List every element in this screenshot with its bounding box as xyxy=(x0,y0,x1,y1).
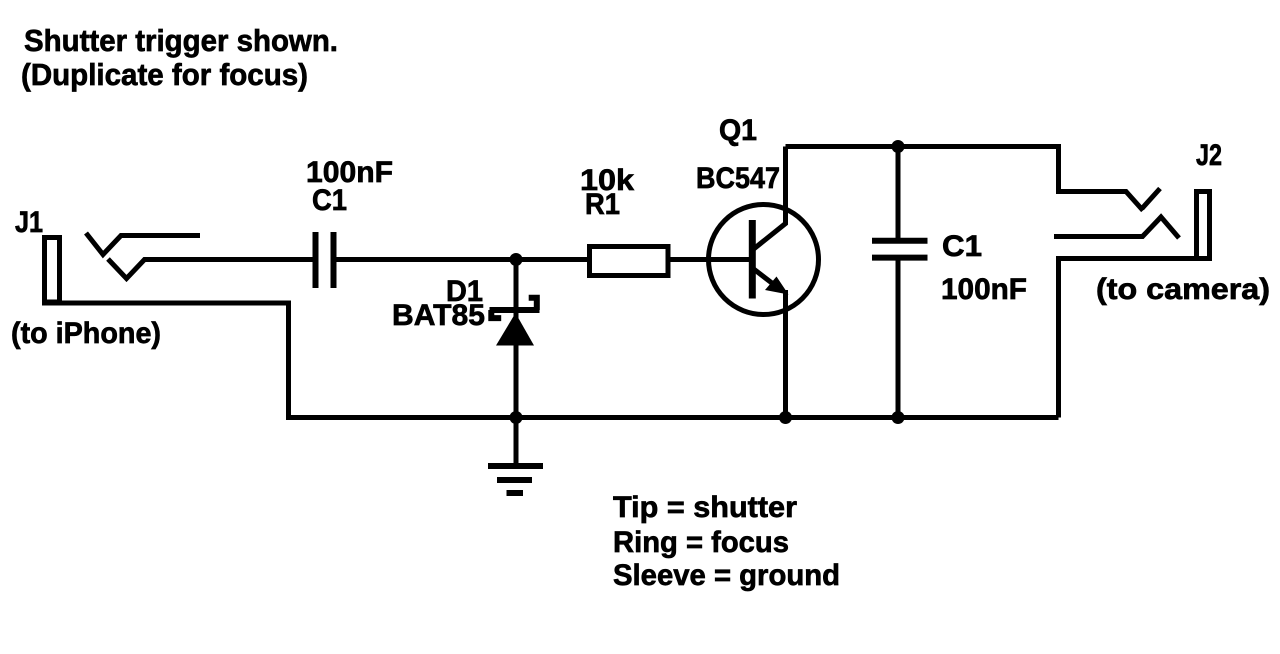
transistor Q1 collector xyxy=(753,147,786,250)
svg-text:Tip = shutter: Tip = shutter xyxy=(613,491,797,524)
ground bar 1 xyxy=(488,463,543,469)
jack J2 ring contact xyxy=(1054,217,1179,238)
transistor Q1 emitter xyxy=(753,269,781,291)
jack J2 body xyxy=(1197,192,1210,259)
svg-text:BC547: BC547 xyxy=(696,162,780,195)
resistor R1 body xyxy=(590,247,669,276)
svg-text:Ring = focus: Ring = focus xyxy=(613,526,789,559)
svg-text:C1: C1 xyxy=(312,184,347,217)
svg-text:BAT85: BAT85 xyxy=(392,299,485,332)
svg-text:(Duplicate for focus): (Duplicate for focus) xyxy=(21,57,308,92)
jack J1 body xyxy=(45,238,60,303)
ground wire xyxy=(514,418,519,464)
svg-text:(to camera): (to camera) xyxy=(1096,273,1270,306)
svg-text:R1: R1 xyxy=(585,188,620,221)
diode D1 schottky hook left xyxy=(491,310,501,318)
capacitor C1 left bar 2 xyxy=(331,232,337,288)
jack J2 tip contact tick xyxy=(1142,189,1160,209)
wire J2 sleeve to ground rail xyxy=(1059,259,1213,418)
transistor Q1 emitter wire xyxy=(783,290,788,418)
capacitor C1 right wire top xyxy=(896,147,901,239)
svg-text:Shutter trigger shown.: Shutter trigger shown. xyxy=(24,23,338,58)
wire collector top rail xyxy=(786,147,1144,211)
capacitor C1 left bar 1 xyxy=(313,232,319,288)
ground bar 2 xyxy=(497,477,532,483)
jack J1 tip contact xyxy=(86,233,200,255)
svg-text:J1: J1 xyxy=(15,206,43,239)
wire J1 sleeve to ground rail xyxy=(42,303,1059,418)
svg-text:(to iPhone): (to iPhone) xyxy=(11,317,161,350)
diode D1 cathode bar xyxy=(490,307,540,313)
transistor Q1 base bar xyxy=(749,220,756,299)
svg-text:J2: J2 xyxy=(1196,139,1222,172)
svg-text:Q1: Q1 xyxy=(719,114,757,147)
svg-text:C1: C1 xyxy=(942,230,982,263)
node junction emitter ground rail xyxy=(779,411,792,424)
node junction capacitor ground rail xyxy=(892,411,905,424)
capacitor C1 right bar 2 xyxy=(872,255,928,261)
node junction top rail capacitor xyxy=(892,140,905,153)
node junction signal xyxy=(510,253,523,266)
svg-text:Sleeve = ground: Sleeve = ground xyxy=(613,559,840,592)
capacitor C1 right bar 1 xyxy=(872,238,928,244)
ground bar 3 xyxy=(507,490,524,496)
wire capacitor to resistor xyxy=(337,257,590,262)
svg-text:100nF: 100nF xyxy=(941,273,1027,306)
diode D1 triangle xyxy=(496,313,534,346)
wire resistor to transistor base xyxy=(668,257,752,262)
transistor Q1 emitter arrow xyxy=(765,277,789,295)
node junction diode ground rail xyxy=(510,411,523,424)
transistor Q1 circle xyxy=(709,205,819,315)
diode D1 wire xyxy=(514,260,519,418)
jack J1 ring contact xyxy=(108,259,313,279)
diode D1 schottky hook right xyxy=(529,298,537,310)
capacitor C1 right wire bottom xyxy=(896,260,901,418)
